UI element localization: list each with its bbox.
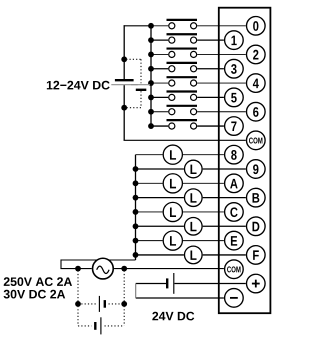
terminal 4 (pin 4)	[247, 74, 266, 93]
wire battery to input COM terminal	[124, 139, 246, 141]
battery B3 24V DC plates	[167, 273, 174, 294]
junction node on output bus row D	[133, 223, 139, 229]
terminal A (pin 11)	[225, 174, 244, 193]
node: DC alt tap right	[121, 266, 127, 272]
node row1 left	[75, 301, 81, 307]
wire bus to load L9	[136, 168, 184, 170]
wire switch SW3 to terminal 3	[197, 68, 224, 70]
switch SW3 contacts	[167, 63, 198, 72]
wire load to terminal A	[183, 182, 224, 184]
output load bus wire	[135, 155, 137, 260]
wire switch SW7 to terminal 7	[197, 125, 224, 127]
terminal 2 (pin 2)	[247, 45, 266, 64]
12-24V DC battery feed wire (lower) to COM	[123, 85, 125, 140]
wire switch SW5 to terminal 5	[197, 96, 224, 98]
terminal + (pin 18)	[247, 274, 266, 293]
junction node on input bus row 7	[148, 123, 154, 129]
wire load to terminal D	[203, 225, 246, 227]
terminal D (pin 14)	[247, 217, 266, 236]
wire bus to load LD	[136, 225, 184, 227]
wire load to terminal F	[203, 254, 246, 256]
label: 12-24V DC	[47, 81, 110, 90]
load lamp L (output 9)	[185, 160, 203, 178]
junction node on input bus row 6	[148, 109, 154, 115]
label: 250V AC 2A / 30V DC 2A	[4, 277, 72, 298]
wire bus to switch SW6	[151, 111, 168, 113]
node: DC alt tap left	[75, 266, 81, 272]
junction node on input bus row 2	[148, 52, 154, 58]
terminal 6 (pin 6)	[247, 102, 266, 121]
dashed alternate-polarity branch (input supply)	[126, 59, 141, 107]
load lamp L (output B)	[185, 189, 203, 207]
wire load to terminal C	[183, 211, 224, 213]
junction node on output bus row B	[133, 195, 139, 201]
switch SW0 contacts	[167, 20, 198, 29]
terminal 8 (pin 9)	[225, 145, 244, 164]
terminal - (pin 19)	[225, 289, 244, 308]
terminal 9 (pin 10)	[247, 160, 266, 179]
node row1 right	[121, 301, 127, 307]
wire bus to switch SW7	[151, 125, 168, 127]
wire bus to switch SW4	[151, 82, 168, 84]
wire bus to load LC	[136, 211, 163, 213]
input common bus wire	[150, 26, 152, 126]
terminal 0 (pin 0)	[247, 17, 266, 36]
switch SW6 contacts	[167, 106, 198, 115]
wire bus to load LF	[136, 254, 184, 256]
dashed DC alternative branch (row 1)	[78, 271, 124, 304]
load lamp L (output C)	[163, 202, 182, 221]
load lamp L (output 8)	[163, 145, 182, 164]
wire bus to load LE	[136, 240, 163, 242]
junction node on output bus row F	[133, 252, 139, 258]
load lamp L (output D)	[185, 217, 203, 235]
dashed DC alternative branch (row 2, reversed polarity)	[78, 306, 124, 326]
12-24V DC battery feed wire (upper)	[123, 25, 125, 80]
terminal COM (pin 17)	[225, 260, 244, 279]
junction node on output bus row E	[133, 238, 139, 244]
junction node on input bus row 5	[148, 95, 154, 101]
wire bus to load LA	[136, 182, 163, 184]
wire AC source to output COM terminal	[114, 268, 224, 270]
battery B1 12-24V DC plates	[111, 80, 138, 85]
AC source G1 (circle with sine)	[93, 258, 114, 279]
terminal 3 (pin 3)	[225, 59, 244, 78]
wire bus to load L8	[136, 154, 163, 156]
junction node on input bus row 1	[148, 37, 154, 43]
wire load to terminal B	[203, 197, 246, 199]
wire switch SW6 to terminal 6	[197, 111, 246, 113]
battery B2b (reversed) plates	[95, 317, 101, 334]
terminal 1 (pin 1)	[225, 31, 244, 50]
junction node on output bus row 9	[133, 166, 139, 172]
wire switch SW4 to terminal 4	[197, 82, 246, 84]
load lamp L (output A)	[163, 174, 182, 193]
wire switch SW0 to terminal 0	[197, 25, 246, 27]
switch SW2 contacts	[167, 49, 198, 58]
terminal F (pin 16)	[247, 246, 266, 265]
wire bus to switch SW2	[151, 53, 168, 55]
wire AC source left lead	[60, 268, 91, 270]
wire 24VDC to + terminal	[136, 283, 166, 285]
junction node on output bus row A	[133, 180, 139, 186]
wire switch SW2 to terminal 2	[197, 53, 246, 55]
wire bus to load LB	[136, 197, 184, 199]
terminal 7 (pin 7)	[225, 117, 244, 136]
terminal B (pin 12)	[247, 188, 266, 207]
junction node on output bus row C	[133, 209, 139, 215]
node: dashed branch tap (bottom)	[121, 105, 127, 111]
terminal COM (pin 8)	[247, 131, 266, 150]
battery B2 (DC alt) plates	[99, 296, 104, 312]
battery B1b (alternate polarity) plates	[131, 85, 150, 90]
switch SW7 contacts	[167, 120, 198, 129]
wire 24VDC to - terminal	[136, 297, 224, 299]
switch SW1 contacts	[167, 34, 198, 43]
junction node on input bus row 3	[148, 66, 154, 72]
wire load to terminal 8	[183, 154, 224, 156]
junction node on input bus row 0	[148, 23, 154, 29]
wire output bus jog to AC source	[61, 259, 136, 268]
wire load to terminal 9	[203, 168, 246, 170]
wire 24VDC left connector	[135, 284, 137, 299]
wire bus to switch SW3	[151, 68, 168, 70]
wire bus to switch SW5	[151, 96, 168, 98]
junction node on input bus row 4	[148, 80, 154, 86]
wire bus to switch SW0	[151, 25, 168, 27]
node: dashed branch tap (top)	[121, 56, 127, 62]
switch SW5 contacts	[167, 92, 198, 101]
terminal block outline	[219, 8, 271, 314]
terminal E (pin 15)	[225, 231, 244, 250]
switch SW4 contacts	[167, 77, 198, 86]
wire bus to switch SW1	[151, 39, 168, 41]
terminal 5 (pin 5)	[225, 88, 244, 107]
terminal C (pin 13)	[225, 203, 244, 222]
label: 24V DC	[152, 312, 194, 321]
load lamp L (output F)	[185, 246, 203, 264]
wire load to terminal E	[183, 240, 224, 242]
wire battery top to input bus (row 0)	[124, 25, 151, 27]
wire switch SW1 to terminal 1	[197, 39, 224, 41]
load lamp L (output E)	[163, 231, 182, 250]
